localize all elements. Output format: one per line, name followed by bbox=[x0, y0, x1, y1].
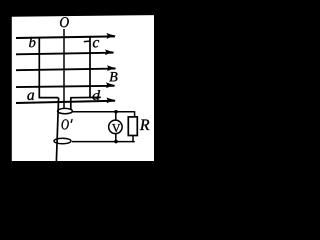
resistor R top lead bbox=[134, 111, 136, 117]
coil side bc right corner segment bbox=[84, 40, 91, 43]
slip ring 2 bbox=[54, 138, 71, 143]
junction node bottom bbox=[114, 140, 117, 143]
wire: ring 2 to external circuit (bottom) bbox=[72, 141, 135, 143]
field line B2 bbox=[16, 53, 114, 55]
field line B4 bbox=[16, 86, 115, 87]
junction node top bbox=[114, 110, 117, 113]
label a bbox=[27, 93, 34, 100]
voltmeter V body bbox=[109, 120, 123, 133]
label O bbox=[60, 17, 69, 27]
rotation axis OO' bbox=[63, 29, 65, 109]
coil lead wire right (d side, down to ring 1) bbox=[70, 98, 72, 110]
voltmeter V bottom lead bbox=[115, 134, 117, 142]
coil lead wire left (a side, down to ring 2 and axle foot) bbox=[56, 98, 58, 161]
label O' bbox=[62, 119, 73, 129]
resistor R body bbox=[128, 117, 137, 136]
field line B1 (top, coincides with coil side bc) bbox=[16, 36, 115, 38]
black scan frame bbox=[0, 0, 172, 161]
coil side ab (left vertical) bbox=[38, 37, 40, 98]
field line B3 bbox=[16, 69, 116, 71]
white figure background bbox=[12, 15, 154, 161]
wire: ring 1 to external circuit (top) bbox=[72, 111, 134, 113]
voltmeter V top lead bbox=[115, 112, 117, 121]
label V (inside voltmeter) bbox=[112, 124, 120, 132]
label R bbox=[140, 120, 150, 130]
label b bbox=[29, 37, 35, 47]
coil side ad left segment bbox=[39, 97, 59, 99]
field line B5 (bottom) bbox=[16, 101, 115, 103]
label c bbox=[93, 40, 99, 47]
slip ring 1 bbox=[58, 108, 73, 113]
coil side ad right segment bbox=[70, 96, 101, 98]
label B bbox=[109, 72, 117, 81]
resistor R bottom lead bbox=[132, 136, 134, 143]
label d bbox=[92, 90, 100, 100]
coil side cd (right vertical) bbox=[89, 36, 91, 98]
